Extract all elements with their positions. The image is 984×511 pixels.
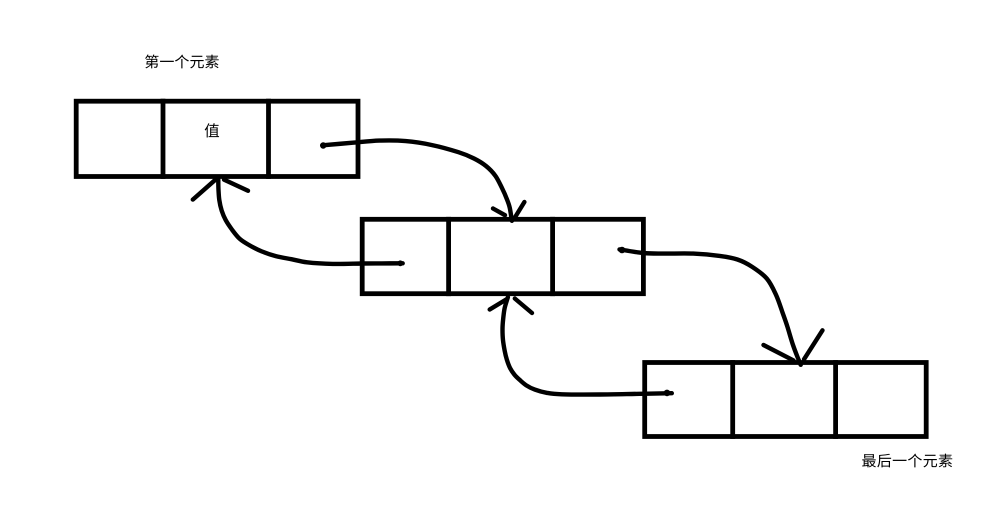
arrowhead barb left (next N2→N3) [764, 345, 794, 360]
wire: prev-pointer curve from N3 cell1 to N2 bottom [503, 297, 672, 394]
node N2 (middle element) outer box [362, 219, 643, 293]
label text: 第一个元素 (first element) [145, 55, 219, 69]
label text: 最后一个元素 (last element) [862, 454, 952, 468]
node N3 cell divider 2 [833, 363, 838, 437]
arrowhead barb left (prev N3→N2) [490, 299, 507, 310]
node N3 (last element) outer box [645, 363, 927, 437]
arrowhead barb right (next N2→N3) [804, 330, 823, 359]
pen start blob (next N2→N3) [619, 247, 626, 254]
wire: next-pointer curve from N2 cell3 to N3 top [620, 249, 801, 364]
node N1 cell divider 2 [266, 101, 271, 176]
node N1 (first element) outer box [76, 101, 358, 176]
arrowhead barb right (next N1→N2) [514, 202, 524, 219]
pen start blob (prev N2→N1) [397, 260, 403, 266]
pen start blob (prev N3→N2) [664, 390, 671, 397]
node N3 cell divider 1 [730, 363, 735, 437]
node N1 cell divider 1 [161, 101, 166, 176]
wire: next-pointer curve from N1 cell3 to N2 top [323, 140, 512, 220]
arrowhead barb right (prev N2→N1) [224, 180, 248, 191]
arrowhead barb right (prev N3→N2) [515, 299, 532, 314]
arrowhead barb left (next N1→N2) [493, 209, 505, 216]
node N2 cell divider 1 [446, 219, 451, 293]
label text: 值 (value) in node N1 middle cell [205, 123, 219, 137]
node N2 cell divider 2 [550, 219, 555, 293]
arrowhead barb left (prev N2→N1) [193, 178, 217, 199]
wire: prev-pointer curve from N2 cell1 to N1 bottom [218, 180, 402, 264]
pen start blob (next N1→N2) [320, 142, 326, 148]
